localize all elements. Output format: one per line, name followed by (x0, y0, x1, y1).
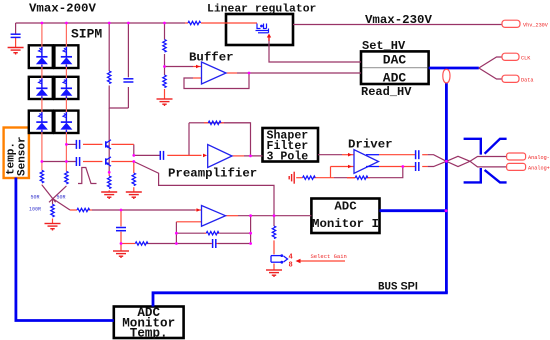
svg-text:50R: 50R (31, 195, 40, 201)
svg-text:3 Pole: 3 Pole (267, 151, 309, 164)
svg-text:ADC: ADC (383, 71, 407, 86)
svg-text:Preamplifier: Preamplifier (168, 167, 257, 181)
svg-text:8: 8 (289, 262, 293, 270)
svg-text:Driver: Driver (348, 138, 393, 152)
svg-text:Vhv_230V: Vhv_230V (523, 22, 549, 28)
svg-text:100R: 100R (29, 207, 41, 213)
svg-text:Linear regulator: Linear regulator (207, 4, 317, 16)
svg-text:SIPM: SIPM (71, 27, 102, 42)
svg-text:Sensor: Sensor (17, 136, 29, 176)
svg-text:Buffer: Buffer (189, 51, 234, 65)
svg-text:Set_HV: Set_HV (362, 39, 406, 53)
svg-text:BUS SPI: BUS SPI (378, 281, 418, 294)
svg-text:CLK: CLK (521, 55, 531, 61)
svg-text:Monitor I: Monitor I (312, 217, 379, 231)
svg-text:Data: Data (521, 77, 533, 83)
svg-text:ADC: ADC (334, 200, 357, 214)
svg-text:4: 4 (289, 254, 293, 262)
svg-text:Read_HV: Read_HV (361, 85, 412, 99)
svg-text:Vmax-230V: Vmax-230V (365, 13, 432, 27)
svg-text:Analog-: Analog- (528, 155, 550, 161)
svg-text:Vmax-200V: Vmax-200V (29, 2, 96, 16)
svg-text:50R: 50R (57, 195, 66, 201)
svg-text:DAC: DAC (383, 53, 407, 68)
svg-text:Select Gain: Select Gain (311, 253, 347, 260)
svg-text:Analog+: Analog+ (528, 165, 550, 171)
svg-text:Temp.: Temp. (130, 327, 168, 340)
